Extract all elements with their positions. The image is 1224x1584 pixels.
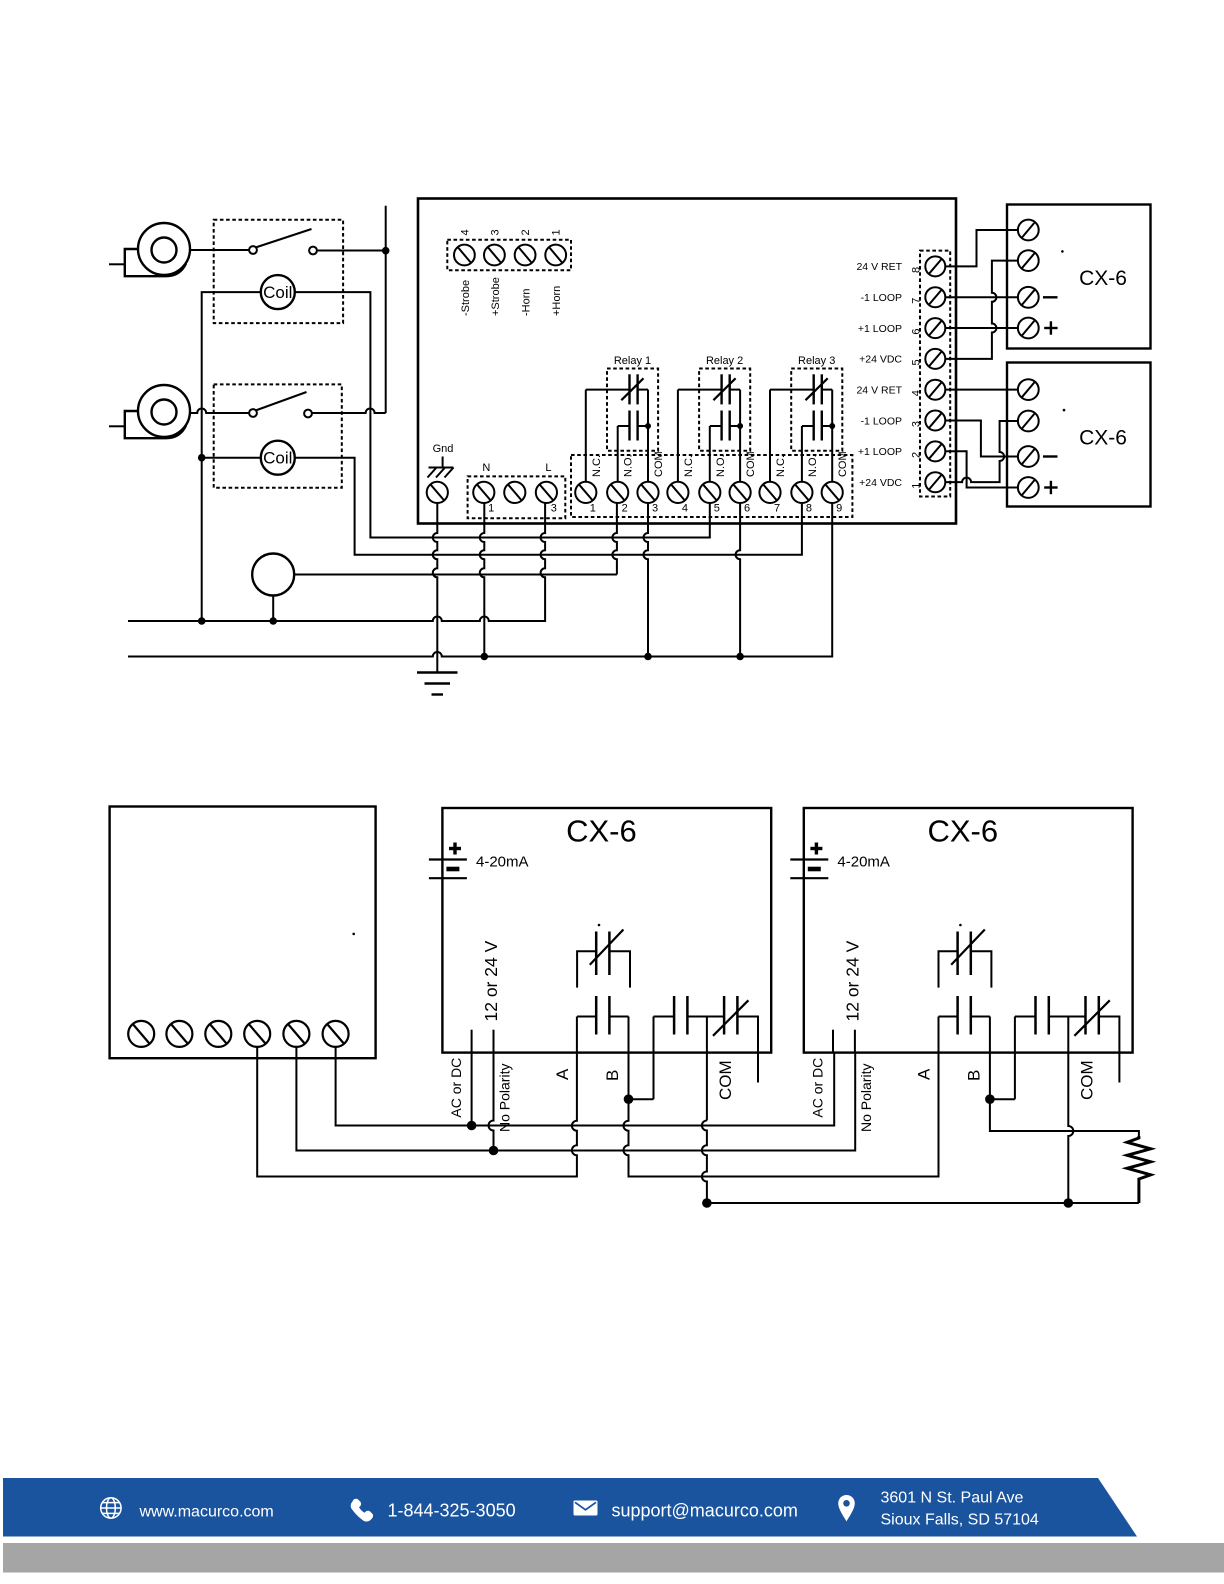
wire Gnd screw to earth ground: [433, 503, 438, 672]
svg-text:L: L: [545, 462, 551, 474]
wire U4 COM middle leg lower (hop): [1068, 1121, 1073, 1204]
wire bus P1 controller 6 to U3/U4 AC-DC: [336, 1047, 835, 1126]
svg-text:Relay 3: Relay 3: [798, 355, 835, 367]
dashed enclosure pressure switch/coil 1: [214, 220, 343, 323]
footer gray bar: [3, 1543, 1224, 1573]
svg-text:Coil: Coil: [263, 449, 292, 468]
phone icon: [351, 1499, 373, 1522]
screw terminal strobe/horn 4: [454, 245, 475, 266]
wire switch S2 to node A riser: [312, 409, 386, 414]
svg-text:-1 LOOP: -1 LOOP: [861, 415, 902, 427]
wire coil K1 right to screw 5 (net A): [295, 292, 710, 537]
screw terminal N: [473, 482, 494, 503]
relay 1 N.C. contact: [586, 374, 648, 404]
junction bus D / node B: [198, 617, 206, 625]
wire strip 7 to U1 pin 3: [945, 296, 1018, 298]
wire stub No-Polarity inside U4: [854, 1030, 856, 1053]
svg-text:COM: COM: [745, 451, 757, 477]
svg-text:3: 3: [551, 503, 557, 515]
svg-text:4: 4: [911, 390, 923, 396]
svg-text:A: A: [914, 1068, 933, 1080]
screw terminal controller 5: [283, 1021, 309, 1047]
junction bus E / screw 3 riser: [644, 653, 652, 661]
wire COM-left leg U4: [1014, 1017, 1016, 1100]
switch S2: [249, 392, 312, 417]
junction bus P1 / U3 AC-DC: [467, 1121, 477, 1131]
wire relay 1 common to screw 3: [647, 390, 649, 482]
screw terminal controller 3: [205, 1021, 231, 1047]
wire strip 4 to U2 pin 1: [945, 389, 1018, 391]
wire relay 2 N.C. to screw 4: [677, 390, 679, 482]
wire stub No-Polarity inside U3: [493, 1030, 495, 1053]
wire bus E (line) to screw 9: [128, 503, 832, 657]
svg-text:1-844-325-3050: 1-844-325-3050: [388, 1501, 516, 1521]
label plus U1: [1044, 321, 1057, 334]
wire coil K2 right to screw 8 (net B): [295, 458, 802, 555]
screw terminal relay output 3: [637, 482, 658, 503]
gas detector U1 CX-6: [1007, 205, 1151, 349]
svg-text:-Strobe: -Strobe: [460, 280, 472, 316]
svg-text:+1 LOOP: +1 LOOP: [858, 446, 902, 458]
svg-text:CX-6: CX-6: [566, 814, 637, 849]
fan/blower FAN1: [109, 223, 190, 276]
wire lamp to screw 2 (net C): [294, 574, 617, 576]
svg-text:N.C.: N.C.: [591, 455, 603, 477]
svg-text:4-20mA: 4-20mA: [476, 854, 529, 871]
relay 3 N.C. contact: [770, 374, 832, 404]
svg-text:3: 3: [911, 421, 923, 427]
screw terminal U1 pin 3: [1018, 287, 1039, 308]
svg-text:Sioux Falls, SD 57104: Sioux Falls, SD 57104: [881, 1512, 1039, 1529]
wire COM middle leg upper U4: [1067, 1017, 1069, 1121]
screw terminal strip 3: [925, 411, 945, 431]
screw terminal relay output 9: [822, 482, 843, 503]
svg-text:+24 VDC: +24 VDC: [859, 477, 902, 489]
wire relay 3 common to screw 9: [831, 390, 833, 482]
wire relay 1 N.O. to screw 2: [617, 426, 619, 481]
coil K1: [261, 275, 295, 309]
svg-text:6: 6: [911, 329, 923, 335]
wire strip 2 to U2 pin 4: [945, 451, 1018, 487]
wire stub AC-DC inside U3: [471, 1030, 473, 1053]
screw terminal strip 2: [925, 441, 945, 461]
map pin icon: [838, 1495, 855, 1522]
svg-text:2: 2: [911, 452, 923, 458]
N.O. contact (A/B) U3: [577, 996, 628, 1035]
wire riser screw 3 (COM relay1): [644, 503, 649, 657]
svg-text:1: 1: [551, 229, 563, 235]
svg-text:N.O.: N.O.: [715, 454, 727, 477]
envelope icon: [574, 1501, 598, 1516]
relay 2 N.C. contact: [678, 374, 740, 404]
svg-text:Relay 1: Relay 1: [614, 355, 651, 367]
svg-text:7: 7: [774, 503, 780, 515]
svg-text:4-20mA: 4-20mA: [837, 854, 890, 871]
screw terminal strobe/horn 3: [484, 245, 505, 266]
svg-text:8: 8: [806, 503, 812, 515]
label plus U2: [1044, 481, 1057, 494]
wire relay 2 N.O. to screw 5: [709, 426, 711, 481]
wire COM-left leg U3: [653, 1017, 655, 1100]
controller box (bottom diagram): [110, 807, 376, 1059]
gas detector U2 CX-6: [1007, 363, 1151, 507]
terminal block relay outputs: [571, 455, 852, 517]
relay 2 N.O. contact: [710, 411, 740, 441]
wire link U3 B to N.O. leg: [629, 1098, 654, 1100]
wire bus COM to resistor: [707, 1202, 1139, 1204]
N.O. contact (A/B) U4: [939, 996, 990, 1035]
junction bus P2 / U3 No-Polarity: [489, 1146, 499, 1156]
svg-text:Coil: Coil: [263, 283, 292, 302]
svg-text:CX-6: CX-6: [1079, 426, 1127, 449]
svg-text:9: 9: [836, 503, 842, 515]
fan/blower FAN2: [109, 385, 190, 438]
wire lamp bottom to bus D: [272, 596, 274, 622]
earth ground symbol: [417, 673, 458, 695]
wire strip 3 to U2 pin 3: [945, 421, 1018, 457]
junction node B: [198, 454, 206, 462]
screw terminal relay output 2: [607, 482, 628, 503]
svg-text:8: 8: [911, 267, 923, 273]
svg-text:3: 3: [652, 503, 658, 515]
svg-text:No Polarity: No Polarity: [497, 1064, 513, 1132]
screw terminal relay output 1: [575, 482, 596, 503]
gas detector U3 CX-6 (bottom): [442, 808, 771, 1053]
svg-text:CX-6: CX-6: [927, 814, 998, 849]
wire link U4 B to N.O. leg: [990, 1098, 1015, 1100]
svg-text:6: 6: [744, 503, 750, 515]
relay 3 (dashed box): [791, 369, 842, 451]
wire strip 6 to U1 pin 4: [945, 327, 1018, 329]
svg-text:COM: COM: [1077, 1060, 1096, 1100]
wire riser screw N: [480, 503, 485, 657]
screw terminal relay output 6: [730, 482, 751, 503]
svg-text:2: 2: [622, 503, 628, 515]
wire FAN2 to switch S2 (hop over coil bus): [190, 409, 249, 414]
screw terminal relay output 4: [667, 482, 688, 503]
indicator lamp LP1: [252, 554, 294, 596]
wire node B down to bus D: [201, 458, 203, 621]
screw terminal strip 6: [925, 318, 945, 338]
junction bus E / screw 6 riser: [736, 653, 744, 661]
svg-text:COM: COM: [837, 451, 849, 477]
svg-text:1: 1: [911, 483, 923, 489]
svg-text:+Horn: +Horn: [551, 286, 563, 316]
wire U4 B to resistor top: [990, 1017, 1139, 1138]
screw terminal controller 4: [244, 1021, 270, 1047]
N.C. contact U4: [939, 930, 992, 988]
wire switch S1 to node A: [317, 250, 386, 252]
svg-text:7: 7: [911, 298, 923, 304]
resistor R1 (end of line): [1127, 1136, 1151, 1203]
screw terminal strip 1: [925, 472, 945, 492]
relay output contacts N.O./N.C. U4: [1015, 996, 1120, 1083]
wire U3 COM middle leg lower (hops): [702, 1121, 707, 1204]
svg-text:12 or 24 V: 12 or 24 V: [842, 940, 862, 1021]
svg-text:AC or DC: AC or DC: [809, 1058, 825, 1118]
screw terminal U2 pin 4: [1018, 477, 1039, 498]
junction lamp/bus D: [269, 617, 277, 625]
svg-text:5: 5: [714, 503, 720, 515]
screw terminal strip 5: [925, 349, 945, 369]
svg-text:-Horn: -Horn: [521, 288, 533, 316]
svg-text:24 V RET: 24 V RET: [856, 261, 902, 273]
screw terminal controller 2: [166, 1021, 192, 1047]
svg-text:Gnd: Gnd: [433, 443, 454, 455]
screw terminal strobe/horn 2: [515, 245, 536, 266]
svg-text:CX-6: CX-6: [1079, 267, 1127, 290]
battery/supply symbol U3: [429, 843, 467, 879]
junction node A: [382, 247, 390, 255]
svg-text:N.O.: N.O.: [623, 454, 635, 477]
relay 1 N.O. contact: [618, 411, 648, 441]
svg-text:+Strobe: +Strobe: [490, 277, 502, 316]
junction relay 2 common: [737, 423, 743, 429]
junction relay 3 common: [829, 423, 835, 429]
label minus U2: [1043, 455, 1058, 457]
wire node B to coil K2: [202, 457, 261, 459]
svg-text:B: B: [603, 1070, 622, 1081]
wire strip 5 to U1 pin 2: [945, 261, 1018, 359]
wire riser screw 6 (COM relay2): [736, 503, 741, 657]
svg-text:+1 LOOP: +1 LOOP: [858, 323, 902, 335]
svg-text:COM: COM: [716, 1060, 735, 1100]
terminal block N/L: [468, 476, 566, 518]
wire strip 1 to U2 pin 2: [945, 421, 1018, 482]
svg-text:4: 4: [682, 503, 688, 515]
screw terminal U2 pin 1: [1018, 379, 1039, 400]
screw terminal controller 6: [323, 1021, 349, 1047]
wire relay 1 N.C. to screw 1: [585, 390, 587, 482]
control panel box: [418, 199, 956, 524]
label minus U1: [1043, 296, 1058, 298]
screw terminal Gnd: [427, 482, 448, 503]
terminal strip field wiring: [920, 251, 950, 497]
svg-text:24 V RET: 24 V RET: [856, 385, 902, 397]
wire strip 8 to U1 pin 1: [945, 230, 1018, 266]
svg-text:support@macurco.com: support@macurco.com: [612, 1501, 798, 1521]
wire U3 AC-DC down: [471, 1053, 473, 1126]
screw terminal relay output 8: [791, 482, 812, 503]
wire node A vertical (switch bus): [385, 206, 387, 413]
wire stub AC-DC inside U4: [832, 1030, 834, 1053]
svg-text:www.macurco.com: www.macurco.com: [139, 1504, 274, 1521]
svg-text:N.O.: N.O.: [807, 454, 819, 477]
wire relay 3 N.O. to screw 8: [801, 426, 803, 481]
screw terminal U1 pin 2: [1018, 250, 1039, 271]
chassis ground symbol: [428, 457, 454, 478]
dashed enclosure pressure switch/coil 2: [214, 384, 342, 487]
wire bus D (coils neutral) to screw L: [128, 503, 545, 621]
screw terminal strip 7: [925, 287, 945, 307]
N.C. contact U3: [577, 930, 630, 988]
svg-text:-1 LOOP: -1 LOOP: [861, 292, 902, 304]
svg-text:+24 VDC: +24 VDC: [859, 354, 902, 366]
svg-text:1: 1: [590, 503, 596, 515]
junction bus E / N riser: [481, 653, 489, 661]
screw terminal (middle): [504, 482, 525, 503]
footer blue banner: [3, 1478, 1137, 1537]
svg-text:5: 5: [911, 359, 923, 365]
wire bus P2 controller 5 to U3/U4 No-Polarity: [296, 1047, 855, 1151]
svg-text:2: 2: [520, 229, 532, 235]
junction U3 COM / bus COM: [702, 1198, 712, 1208]
wire relay 2 common to screw 6: [739, 390, 741, 482]
junction relay 1 common: [645, 423, 651, 429]
svg-text:A: A: [553, 1068, 572, 1080]
relay 1 (dashed box): [607, 369, 658, 451]
screw terminal strobe/horn 1: [545, 245, 566, 266]
svg-text:N.C.: N.C.: [683, 455, 695, 477]
wire COM middle leg upper U3: [706, 1017, 708, 1121]
wire riser screw 2: [612, 503, 617, 575]
globe icon: [101, 1498, 121, 1518]
screw terminal U1 pin 4: [1018, 318, 1039, 339]
svg-text:No Polarity: No Polarity: [858, 1064, 874, 1132]
wire U3 No-Polarity down (hop): [489, 1053, 494, 1151]
svg-text:AC or DC: AC or DC: [448, 1058, 464, 1118]
screw terminal controller 1: [128, 1021, 154, 1047]
svg-text:B: B: [964, 1070, 983, 1081]
svg-text:3601 N St. Paul Ave: 3601 N St. Paul Ave: [881, 1490, 1024, 1507]
svg-text:N.C.: N.C.: [775, 455, 787, 477]
screw terminal relay output 7: [759, 482, 780, 503]
screw terminal strip 4: [925, 380, 945, 400]
junction U4 B / COM link: [985, 1094, 995, 1104]
junction U3 B / COM link: [624, 1094, 634, 1104]
wire coil K1 left to node B: [202, 292, 261, 458]
svg-text:1: 1: [488, 503, 494, 515]
relay 3 N.O. contact: [802, 411, 832, 441]
svg-text:12 or 24 V: 12 or 24 V: [481, 940, 501, 1021]
svg-text:3: 3: [489, 229, 501, 235]
wire relay 3 N.C. to screw 7: [769, 390, 771, 482]
screw terminal relay output 5: [699, 482, 720, 503]
screw terminal L: [536, 482, 557, 503]
switch S1: [249, 229, 317, 254]
screw terminal U2 pin 2: [1018, 411, 1039, 432]
coil K2: [261, 441, 295, 475]
svg-text:Relay 2: Relay 2: [706, 355, 743, 367]
terminal block strobe/horn: [447, 240, 571, 271]
wire bus B U3 B to U4 A: [624, 1017, 939, 1177]
gas detector U4 CX-6 (bottom): [804, 808, 1133, 1053]
wire bus A controller 4 to U3 A: [257, 1017, 577, 1177]
junction U4 COM / bus COM: [1064, 1198, 1074, 1208]
screw terminal U2 pin 3: [1018, 446, 1039, 467]
svg-text:COM: COM: [653, 451, 665, 477]
screw terminal strip 8: [925, 256, 945, 276]
relay output contacts N.O./N.C. U3: [654, 996, 759, 1083]
battery/supply symbol U4: [790, 843, 828, 879]
svg-text:N: N: [482, 462, 490, 474]
svg-text:4: 4: [459, 229, 471, 235]
wire FAN1 to switch S1: [190, 249, 249, 251]
relay 2 (dashed box): [699, 369, 750, 451]
screw terminal U1 pin 1: [1018, 220, 1039, 241]
